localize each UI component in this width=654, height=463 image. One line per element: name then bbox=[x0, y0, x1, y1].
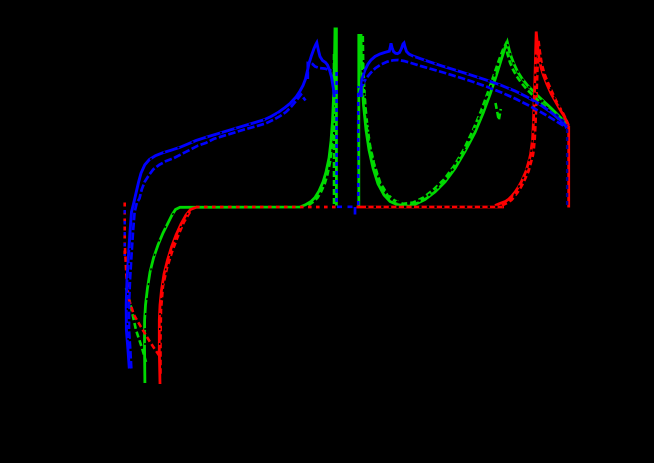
green dashed second pole column (left pole) bbox=[333, 54, 336, 204]
blue solid curve: main arc left bbox=[126, 43, 567, 369]
green dashed curve: U inner + right peak dashed bbox=[363, 45, 567, 204]
green solid curve: left dive, flat, left pole flank bbox=[145, 28, 567, 384]
green solid curve: right flank + U + right peak bbox=[361, 34, 567, 206]
green dashed left-pole left flank bbox=[309, 28, 337, 205]
black dash texture overlay: green U bbox=[363, 60, 501, 205]
red solid end drop bbox=[567, 126, 570, 208]
blue dashed flat between poles bbox=[337, 205, 358, 208]
red dashed right spike bbox=[502, 40, 569, 206]
green dashed right-pole right flank bbox=[363, 36, 399, 205]
navy dashed end drop bbox=[566, 129, 568, 206]
red dashed near left dive right side bbox=[161, 212, 191, 375]
blue dashed vertical at far-left resonance bbox=[123, 210, 125, 256]
black dash texture overlay: red right spike flanks bbox=[514, 52, 536, 196]
blue dashed curve: lower arc right bbox=[359, 60, 567, 128]
black dash texture overlay: green right peak flanks bbox=[508, 44, 546, 103]
blue dashed stub below flat left of right pole bbox=[354, 207, 357, 216]
black dash texture overlay: left dives bbox=[145, 211, 175, 345]
green dashed curve: left diagonal connector bbox=[126, 28, 566, 362]
navy dashed end segment over curves bbox=[556, 114, 567, 125]
green solid curve: left pole drop line bbox=[335, 28, 338, 206]
blue dashed square step and plateau left of pole bbox=[308, 63, 332, 79]
red solid right spike bbox=[495, 32, 569, 206]
red solid curve: left dive bbox=[159, 32, 568, 385]
red flat right of poles bbox=[357, 206, 505, 209]
blue dashed rise at right pole bbox=[357, 86, 360, 205]
black dash texture overlay: flat line right part bbox=[127, 44, 563, 345]
blue solid curve: right arc bbox=[361, 43, 567, 128]
green dashed hook on right peak left flank bbox=[496, 103, 501, 120]
blue dashed drop at left pole bbox=[335, 72, 338, 205]
red dashed flat left of poles (over green) bbox=[196, 206, 337, 209]
green solid curve: right pole up line bbox=[357, 34, 360, 206]
red dashed curve: left pieces bbox=[125, 40, 569, 376]
black dash texture overlay: blue arc left bbox=[150, 108, 290, 160]
blue dashed curve: lower arc left bbox=[129, 60, 567, 369]
black dash texture overlay: blue arc right bbox=[413, 57, 555, 115]
